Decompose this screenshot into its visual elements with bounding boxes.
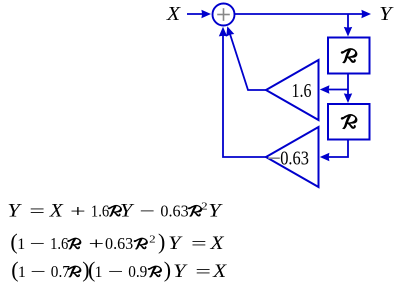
- svg-text:+: +: [89, 234, 105, 253]
- svg-text:X: X: [166, 3, 181, 25]
- svg-text:X: X: [209, 233, 225, 254]
- svg-text:−: −: [30, 262, 46, 281]
- svg-text:=: =: [195, 262, 211, 281]
- svg-text:1.6: 1.6: [50, 234, 68, 253]
- svg-text:=: =: [29, 201, 45, 220]
- svg-text:1: 1: [17, 236, 25, 253]
- svg-text:2: 2: [201, 202, 208, 213]
- svg-text:X: X: [49, 200, 65, 221]
- svg-text:Y: Y: [208, 200, 223, 221]
- svg-text:2: 2: [149, 234, 156, 245]
- svg-text:−: −: [29, 234, 45, 253]
- svg-text:X: X: [212, 261, 228, 282]
- svg-text:Y: Y: [379, 3, 394, 25]
- svg-text:Y: Y: [7, 200, 22, 221]
- svg-text:): ): [158, 229, 165, 254]
- svg-text:Y: Y: [168, 233, 183, 254]
- svg-text:+: +: [70, 201, 86, 220]
- svg-text:1: 1: [18, 264, 26, 281]
- svg-text:1: 1: [95, 264, 103, 281]
- svg-text:Y: Y: [120, 200, 135, 221]
- svg-text:−: −: [108, 262, 124, 281]
- svg-text:1.6: 1.6: [91, 201, 109, 220]
- svg-text:0.63: 0.63: [105, 234, 133, 253]
- svg-text:0.7: 0.7: [51, 262, 71, 281]
- svg-text:=: =: [191, 234, 207, 253]
- svg-text:): ): [164, 257, 171, 282]
- svg-text:0.63: 0.63: [280, 148, 309, 170]
- svg-text:−: −: [139, 201, 155, 220]
- svg-text:0.9: 0.9: [128, 262, 147, 281]
- svg-text:0.63: 0.63: [160, 201, 188, 220]
- svg-text:Y: Y: [173, 261, 188, 282]
- svg-text:1.6: 1.6: [292, 80, 312, 102]
